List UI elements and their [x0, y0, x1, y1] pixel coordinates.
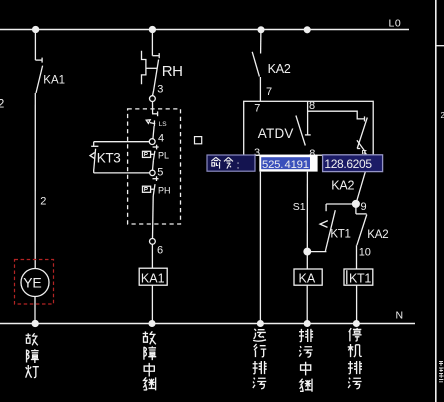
dynamic input field X: [259, 155, 317, 172]
wire coil KA1 to rail: [151, 285, 153, 323]
wire node6 to coil KA1: [151, 244, 153, 268]
contact KA1: [35, 58, 42, 93]
svg-text:LS: LS: [159, 121, 168, 128]
junction dot top col3: [258, 27, 264, 33]
junction dot node S1 branch: [304, 248, 311, 255]
node 3 terminal circle: [150, 96, 156, 102]
step wire to pin 5 contact: [308, 111, 365, 119]
right edge text fragments: [439, 362, 444, 382]
svg-text:KA2: KA2: [331, 179, 354, 193]
junction dot bottom col3: [258, 321, 264, 327]
node 4 terminal circle: [149, 139, 155, 145]
svg-text:525.4191: 525.4191: [262, 159, 309, 171]
timer contact KT1: [307, 204, 335, 252]
svg-text:4: 4: [158, 132, 164, 144]
hanzi label 故障灯: [26, 333, 39, 377]
svg-text:7: 7: [254, 103, 260, 115]
svg-text:8: 8: [309, 100, 315, 112]
contact KA2 lower: [356, 204, 367, 245]
svg-text:2: 2: [441, 111, 444, 120]
wire col1 middle: [34, 93, 36, 269]
wire col1 top: [34, 30, 36, 61]
svg-text::: :: [237, 159, 240, 171]
junction dot node 9: [353, 201, 360, 208]
lamp YE: [21, 269, 49, 297]
wire node 10 to coil KT1: [356, 245, 358, 269]
svg-text:10: 10: [359, 246, 371, 258]
wire col3 top: [260, 30, 262, 54]
dynamic input field Y: [323, 155, 383, 172]
wire node 7: [259, 77, 261, 101]
svg-text:KA2: KA2: [367, 229, 388, 241]
svg-text:5: 5: [157, 166, 163, 178]
svg-text:KA1: KA1: [141, 272, 165, 286]
svg-text:6: 6: [157, 245, 163, 257]
hanzi label 停机排污: [348, 328, 362, 389]
contact KA2 pin5: [357, 116, 367, 148]
svg-text:KT3: KT3: [97, 150, 121, 165]
svg-text:L0: L0: [389, 18, 402, 30]
wire col4 to coil KA: [306, 255, 308, 269]
svg-text:KT1: KT1: [330, 228, 350, 240]
timer coil KT1: [344, 269, 373, 285]
wire coil KT1 to rail: [356, 285, 358, 323]
red selection marquee around YE: [15, 260, 54, 305]
pressure switch PL: [143, 145, 159, 171]
svg-text:N: N: [396, 310, 404, 322]
relay coil KA: [294, 269, 322, 285]
power rail L0: [0, 29, 409, 31]
junction dot bottom col4: [304, 321, 310, 327]
svg-text:2: 2: [40, 195, 46, 207]
wire col3 pin3 to rail: [259, 172, 261, 324]
labels (latin): [23, 18, 403, 322]
wire coil KA to rail: [306, 285, 308, 323]
junction dot bottom col5: [354, 321, 360, 327]
svg-text:128.6205: 128.6205: [324, 157, 372, 171]
relay coil KA1: [139, 268, 167, 285]
svg-text:ATDV: ATDV: [258, 126, 294, 141]
svg-text:KT1: KT1: [349, 272, 371, 286]
node 6 terminal circle: [150, 239, 156, 245]
svg-text:PH: PH: [158, 186, 171, 196]
svg-text:9: 9: [361, 201, 367, 213]
svg-text:KA: KA: [299, 272, 316, 286]
pin 8 wire: [305, 101, 311, 135]
svg-text:3: 3: [157, 83, 163, 95]
svg-text:PL: PL: [158, 151, 169, 161]
float switch LS: [146, 111, 158, 138]
node 5 terminal circle: [150, 170, 155, 175]
thermal relay contact RH: [142, 51, 160, 96]
hanzi label 故障中继: [143, 331, 157, 390]
wire node3 to LS: [152, 102, 154, 114]
junction dot top col1: [33, 27, 39, 33]
contact inside ATDV: [296, 116, 305, 146]
command tooltip box: [207, 155, 255, 171]
controller box ATDV: [244, 101, 374, 155]
svg-text:KA2: KA2: [268, 62, 291, 76]
contact KA2: [252, 52, 259, 77]
right border wire: [435, 0, 437, 402]
hanzi label 排污中继: [299, 329, 313, 392]
pressure switch PH: [143, 176, 159, 238]
wire col1 bottom: [34, 297, 36, 324]
timer contact KT3: [90, 142, 150, 173]
wire col2 top: [151, 30, 153, 56]
hanzi label 运行排污: [253, 329, 267, 389]
svg-text:KA1: KA1: [43, 75, 65, 87]
junction dot top col2: [149, 27, 155, 33]
wire col4 tooltip to junction: [306, 172, 308, 252]
svg-text:YE: YE: [23, 275, 41, 291]
wire pin5 to node9 zigzag: [356, 140, 366, 204]
junction dot bottom col2: [149, 321, 155, 327]
neutral rail N: [0, 323, 415, 325]
svg-text:S1: S1: [293, 201, 306, 213]
junction dot top col4: [304, 27, 310, 33]
svg-text:7: 7: [266, 86, 272, 98]
right border branch wire: [436, 45, 444, 47]
svg-text:RH: RH: [162, 63, 183, 80]
svg-text:2: 2: [0, 99, 4, 111]
grip square: [195, 137, 202, 144]
wire node9 horizontal: [326, 203, 356, 205]
junction dot bottom col1: [32, 321, 38, 327]
dashed enclosure box: [128, 109, 181, 224]
